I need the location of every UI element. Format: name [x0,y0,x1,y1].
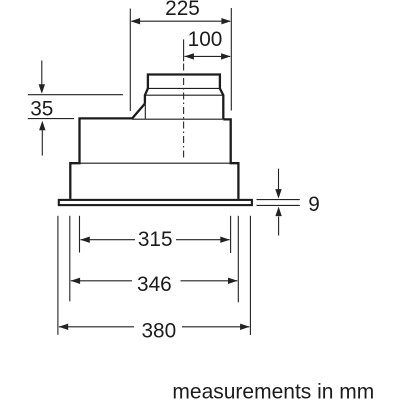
svg-text:35: 35 [30,97,53,120]
svg-text:225: 225 [165,0,200,20]
dimension 100 [184,39,231,61]
bottom flange plate [59,200,252,205]
svg-text:380: 380 [141,319,176,342]
hood body outline [70,104,238,199]
dimension 9 [257,169,300,236]
dimension 225 [130,8,231,111]
svg-text:9: 9 [308,193,320,216]
dimension 346 [70,216,239,302]
centerline of duct [183,64,185,159]
svg-text:measurements in mm: measurements in mm [172,380,374,400]
duct collar outline [145,75,223,120]
dimension 380 [58,216,251,335]
svg-text:100: 100 [188,28,223,51]
dimension 35 [28,61,123,156]
dimension 315 [80,216,231,253]
svg-text:315: 315 [138,228,173,251]
svg-text:346: 346 [137,273,172,296]
